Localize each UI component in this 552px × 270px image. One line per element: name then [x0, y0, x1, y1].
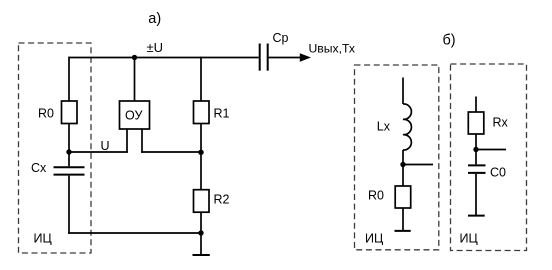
node: ground junction: [198, 230, 203, 235]
capacitor C0: [468, 165, 486, 173]
wire: bottom rail: [68, 232, 201, 234]
wire: Lx top lead: [402, 78, 404, 105]
wire: divider node to R2: [200, 152, 202, 190]
measuring-circuit dashed box ИЦ (b-left): [355, 65, 439, 250]
wire: Rx to node: [475, 134, 477, 150]
resistor R2: [194, 190, 210, 213]
capacitor Cp: [260, 44, 268, 71]
svg-text:Ср: Ср: [273, 31, 289, 45]
wire: rail to R0: [68, 57, 70, 102]
measuring-circuit dashed box ИЦ (a): [19, 43, 92, 253]
capacitor Cx: [54, 167, 85, 174]
svg-text:ИЦ: ИЦ: [34, 232, 53, 246]
wire: +U supply rail: [69, 57, 259, 59]
svg-text:±U: ±U: [147, 40, 164, 55]
svg-text:а): а): [148, 11, 161, 27]
node: Rx-C0 junction: [473, 147, 478, 152]
resistor R0: [62, 101, 78, 124]
wire: node stub (b-left): [403, 164, 433, 166]
wire: Lx to node: [402, 150, 404, 165]
wire: Rx top lead: [475, 97, 477, 113]
wire: R2 to ground node: [200, 212, 202, 233]
wire: op-amp output to divider: [141, 151, 201, 153]
node: Lx-R0 junction: [400, 162, 405, 167]
wire: node U to Cx: [68, 152, 70, 166]
measuring-circuit dashed box ИЦ (b-right): [451, 64, 527, 251]
wire: rail to R1: [200, 57, 202, 102]
inductor Lx: [403, 104, 411, 150]
wire: node U to op-amp input: [69, 151, 128, 153]
svg-text:Lx: Lx: [377, 119, 391, 133]
resistor R0 (b): [395, 186, 411, 208]
svg-text:Uвых,Тх: Uвых,Тх: [309, 42, 356, 56]
svg-text:Rx: Rx: [493, 116, 509, 130]
svg-text:ИЦ: ИЦ: [460, 232, 479, 246]
output arrowhead: [300, 53, 311, 61]
svg-text:R0: R0: [368, 189, 384, 203]
svg-text:R2: R2: [214, 193, 230, 207]
op-amp U1 (ОУ): [120, 101, 150, 129]
svg-text:R0: R0: [38, 107, 54, 121]
svg-text:С0: С0: [490, 165, 506, 179]
node: op-amp supply junction: [132, 55, 137, 60]
ground (a): [193, 233, 210, 255]
svg-text:ОУ: ОУ: [125, 109, 142, 123]
svg-text:ИЦ: ИЦ: [365, 232, 384, 246]
svg-text:U: U: [101, 139, 110, 153]
wire: Cx to bottom rail: [68, 176, 70, 234]
wire: node to R0 (b): [402, 165, 404, 187]
wire: R1 to divider node: [200, 124, 202, 153]
wire: op-amp supply pin: [134, 58, 136, 102]
wire: op-amp output pin: [141, 129, 143, 153]
node: divider junction: [198, 150, 203, 155]
svg-text:R1: R1: [214, 107, 230, 121]
resistor Rx: [468, 112, 484, 134]
node U junction dot: [66, 149, 71, 154]
ground (b-left): [395, 208, 411, 231]
wire: node to C0: [475, 150, 477, 165]
resistor R1: [194, 101, 210, 124]
wire: op-amp input pin: [126, 129, 128, 153]
svg-text:Cx: Cx: [31, 161, 47, 175]
wire: node stub (b-right): [476, 149, 506, 151]
wire: R0 to node U: [68, 124, 70, 153]
wire: Cp to output arrow: [269, 57, 302, 59]
ground (b-right): [468, 174, 485, 216]
svg-text:б): б): [443, 32, 456, 48]
